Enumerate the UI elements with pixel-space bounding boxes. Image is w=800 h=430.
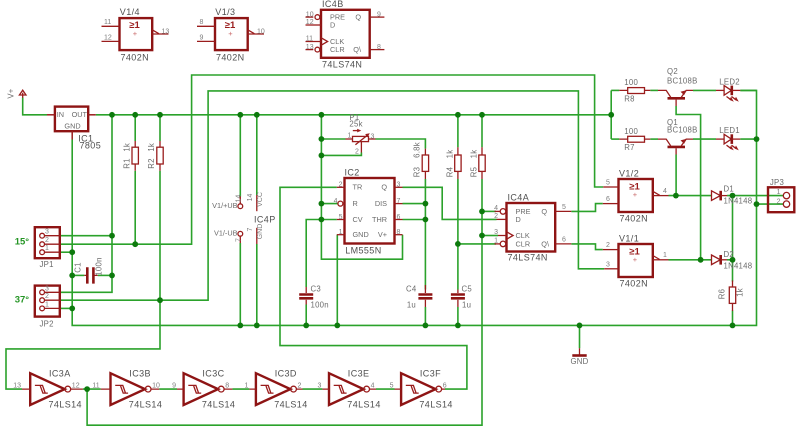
svg-text:74LS14: 74LS14 <box>419 400 452 410</box>
svg-text:LED2: LED2 <box>719 78 740 87</box>
svg-text:+: + <box>633 190 638 199</box>
svg-text:C4: C4 <box>406 285 417 294</box>
svg-text:C5: C5 <box>462 285 473 294</box>
wire net JP1 pin2 / R1 up over the top to V1/2 pin 5 <box>60 75 603 244</box>
D flip-flop IC4B 74LS74N (spare) <box>306 0 385 70</box>
svg-text:R2: R2 <box>147 158 156 168</box>
junction GND column JP2 pin1 <box>69 306 75 312</box>
svg-text:10: 10 <box>306 11 314 18</box>
svg-text:1: 1 <box>45 301 49 308</box>
junction R1 bottom JP1 pin2 <box>132 241 138 247</box>
ground symbol GND <box>570 348 588 366</box>
junction D1 line diode-or column <box>730 193 736 199</box>
svg-text:4: 4 <box>663 188 667 195</box>
svg-text:74LS14: 74LS14 <box>49 400 82 410</box>
svg-text:D1: D1 <box>724 184 734 193</box>
wire net 555 Q to IC4A D <box>403 187 497 219</box>
pin GND stub <box>71 131 73 139</box>
wire IC3E out to IC3F in <box>376 388 395 390</box>
wire 555 DIS link to R3 column <box>403 203 426 205</box>
junction D2 cathode diode-or column <box>730 257 736 263</box>
svg-text:R7: R7 <box>624 143 634 152</box>
wire 555 CV line to C3 top <box>306 220 337 288</box>
svg-text:R1: R1 <box>122 158 131 168</box>
potentiometer P1 25k <box>346 113 376 155</box>
D flip-flop IC4A 74LS74N <box>494 192 571 262</box>
junction R3 column THR <box>423 217 429 223</box>
pin 2 <box>40 298 45 303</box>
junction GND rail GND symbol <box>577 323 583 329</box>
svg-text:1N4148: 1N4148 <box>724 261 753 270</box>
pin 4 R stub with bubble <box>338 201 343 206</box>
svg-text:JP2: JP2 <box>40 320 54 329</box>
svg-text:3: 3 <box>45 229 49 236</box>
junction VCC rail R7/R8 <box>608 112 614 118</box>
pin 5 stub <box>603 186 618 188</box>
wire V1/-UB pin down to GND rail <box>239 243 241 325</box>
svg-text:C3: C3 <box>311 285 321 294</box>
junction VCC rail R4 <box>455 112 461 118</box>
schmitt inverter IC3E 74LS14 <box>317 369 380 410</box>
junction GND rail IC2 GND <box>334 323 340 329</box>
svg-text:+: + <box>228 29 233 38</box>
pin 1 <box>40 250 45 255</box>
wire R8 left link <box>611 89 619 91</box>
svg-text:7402N: 7402N <box>620 214 649 224</box>
output wedge pin 1 <box>653 256 660 260</box>
svg-text:IN: IN <box>57 110 64 119</box>
junction GND column JP1 pin1 <box>69 249 75 255</box>
svg-text:6: 6 <box>443 382 447 389</box>
schmitt inverter IC3B 74LS14 <box>92 369 162 410</box>
transistor Q1 BC108B <box>658 118 698 155</box>
junction R5 column PRE <box>479 209 485 215</box>
svg-text:5: 5 <box>562 204 566 211</box>
svg-text:100n: 100n <box>95 257 104 275</box>
schmitt inverter IC3C 74LS14 <box>172 369 235 410</box>
wire PRE link from R5 column <box>482 210 496 212</box>
svg-text:Q: Q <box>355 13 361 22</box>
wire R1 bottom to JP1 pin2 line <box>134 171 136 244</box>
pin 11 CLK stub with wedge <box>306 38 328 46</box>
svg-text:GND: GND <box>353 230 369 239</box>
svg-text:8: 8 <box>377 44 381 51</box>
pin 13 CLR stub with bubble <box>306 49 314 51</box>
svg-text:BC108B: BC108B <box>667 77 698 86</box>
svg-text:V+: V+ <box>7 88 16 98</box>
resistor R3 6.8k <box>412 142 428 179</box>
svg-text:1k: 1k <box>147 143 156 152</box>
wire VCC to R4 top <box>457 115 459 148</box>
svg-text:8: 8 <box>225 382 229 389</box>
pin 3 <box>40 233 45 238</box>
svg-text:6: 6 <box>562 237 566 244</box>
svg-text:100n: 100n <box>311 300 329 309</box>
pin 7 DIS stub <box>395 203 403 205</box>
schmitt inverter IC3D 74LS14 <box>244 369 307 410</box>
svg-text:Q2: Q2 <box>667 67 678 76</box>
svg-text:1k: 1k <box>736 288 745 297</box>
emission arrows <box>727 145 737 149</box>
wire VCC column x321 to P1, 555 R, CV, and V+ pin 8 <box>321 115 402 259</box>
svg-text:LED1: LED1 <box>719 126 740 135</box>
svg-text:14: 14 <box>247 194 254 202</box>
pin 2 <box>783 201 789 207</box>
svg-text:1: 1 <box>348 132 352 139</box>
pin 12 D stub <box>306 24 322 26</box>
wire diode-or column to R6 top <box>732 196 734 282</box>
wire net VCC rail from IC1 OUT to R7/R8 tee <box>96 114 611 116</box>
svg-text:D2: D2 <box>724 250 734 259</box>
svg-text:1k: 1k <box>445 150 454 159</box>
svg-text:8: 8 <box>397 229 401 236</box>
NOR gate V1/1 7402N <box>603 233 669 288</box>
svg-text:7: 7 <box>397 198 401 205</box>
wire LED2 cathode to right column <box>740 89 756 91</box>
svg-text:13: 13 <box>306 44 314 51</box>
wire VCC to R2 top <box>159 115 161 141</box>
svg-text:V1/+UB: V1/+UB <box>212 201 237 210</box>
wire P1 wiper link <box>321 153 361 156</box>
resistor R8 100 <box>619 78 650 103</box>
svg-text:7: 7 <box>247 227 254 231</box>
svg-text:R6: R6 <box>717 289 726 299</box>
svg-text:2: 2 <box>355 148 359 155</box>
adjust arrow <box>353 130 359 132</box>
timer IC2 LM555N <box>334 167 403 255</box>
junction VCC rail x321 <box>319 112 325 118</box>
svg-text:IC4B: IC4B <box>322 0 344 9</box>
junction GND rail C5 <box>455 323 461 329</box>
svg-text:100: 100 <box>624 78 638 87</box>
svg-text:9: 9 <box>172 382 176 389</box>
power pin V1/-UB <box>214 229 243 243</box>
wire IC3A out to IC3B in <box>83 388 101 390</box>
svg-text:7402N: 7402N <box>216 52 245 62</box>
junction GND column C1 <box>69 273 75 279</box>
voltage regulator IC1 7805 <box>47 107 101 151</box>
svg-text:2: 2 <box>298 382 302 389</box>
capacitor C3 100n <box>299 285 329 310</box>
svg-text:25k: 25k <box>349 120 362 129</box>
emission arrows <box>727 97 737 101</box>
svg-text:1N4148: 1N4148 <box>724 196 753 205</box>
emitter lead with arrow <box>681 139 693 146</box>
svg-text:Q: Q <box>381 183 387 192</box>
svg-text:IC4A: IC4A <box>508 192 530 202</box>
svg-text:2: 2 <box>494 213 498 220</box>
svg-text:7402N: 7402N <box>620 279 649 289</box>
pin 1 <box>40 306 45 311</box>
connector JP1 <box>35 227 61 269</box>
svg-text:D: D <box>330 20 335 29</box>
svg-text:10: 10 <box>257 28 265 35</box>
junction VCC rail R1 <box>132 112 138 118</box>
resistor R5 1k <box>469 147 485 179</box>
svg-text:D: D <box>516 215 521 224</box>
svg-text:R4: R4 <box>445 166 454 177</box>
junction VCC rail IC4P <box>254 112 260 118</box>
wire CLK link from R5 column <box>482 235 498 237</box>
svg-text:Q\: Q\ <box>353 45 362 54</box>
svg-text:100: 100 <box>624 127 638 136</box>
resistor R7 100 <box>619 127 650 152</box>
svg-text:6: 6 <box>397 214 401 221</box>
schmitt inverter IC3A 74LS14 <box>13 369 83 410</box>
svg-text:C1: C1 <box>74 262 83 272</box>
svg-text:1: 1 <box>45 245 49 252</box>
junction V1/2 out Q1 base <box>673 193 679 199</box>
capacitor C4 1u <box>406 285 432 310</box>
junction GND rail V1/-UB <box>237 323 243 329</box>
wire GND symbol drop <box>579 325 581 348</box>
junction VCC rail R2 <box>157 112 163 118</box>
svg-text:2: 2 <box>606 242 610 249</box>
svg-text:+: + <box>133 29 138 38</box>
svg-text:74LS74N: 74LS74N <box>322 60 362 70</box>
junction x321 P1 wiper <box>319 153 325 159</box>
svg-text:6.8k: 6.8k <box>412 142 421 158</box>
connector JP2 <box>35 285 61 328</box>
wire JP1 pin3 to x112 column <box>60 235 112 237</box>
svg-text:3: 3 <box>606 261 610 268</box>
pin 3 stub <box>369 138 376 140</box>
svg-text:1: 1 <box>244 382 248 389</box>
wire IC3D out to IC3E in <box>303 388 323 390</box>
junction VCC rail x112 <box>109 112 115 118</box>
svg-text:1k: 1k <box>122 143 131 152</box>
wire net V+ input from V+ symbol to IC1 IN <box>23 98 47 115</box>
wire Q2 base jog down to V1/1 out net <box>676 106 701 260</box>
svg-text:V1/1: V1/1 <box>619 233 639 243</box>
svg-text:9: 9 <box>200 34 204 41</box>
svg-text:11: 11 <box>306 36 313 43</box>
capacitor C5 1u <box>451 285 472 310</box>
transistor Q2 BC108B <box>658 67 698 106</box>
svg-text:13: 13 <box>13 382 21 389</box>
svg-text:THR: THR <box>372 215 387 224</box>
wire R2 bottom down through JP2 pin2 junction, left, down to IC3A input <box>6 171 160 389</box>
wire R4 bottom through CLR junction to C5 top <box>457 179 459 290</box>
pin 6 stub <box>603 203 619 205</box>
pin 2 TR stub <box>337 186 345 188</box>
pin 9 Q stub <box>370 16 385 18</box>
pin 5 Q stub <box>555 210 571 212</box>
pin 10 PRE stub with bubble <box>306 16 314 18</box>
NOR gate V1/4 7402N (spare) <box>102 7 170 62</box>
svg-text:3: 3 <box>317 382 321 389</box>
svg-text:74LS14: 74LS14 <box>129 400 162 410</box>
wire VCC to R1 top <box>134 115 136 141</box>
junction VCC rail V1/+UB <box>237 112 243 118</box>
junction GND rail R6 <box>730 323 736 329</box>
wire CLR link from R4 column <box>458 243 496 245</box>
svg-text:3: 3 <box>397 182 401 189</box>
base stub <box>675 100 677 106</box>
wire Q2 emitter to LED2 anode <box>693 89 716 91</box>
wire JP3 pin2 from right column <box>757 203 784 205</box>
svg-text:IC4P: IC4P <box>254 215 276 225</box>
collector lead <box>658 139 671 146</box>
svg-text:DIS: DIS <box>375 199 387 208</box>
wire JP1 pin1 to GND column <box>60 251 72 253</box>
svg-text:R8: R8 <box>624 94 634 103</box>
wiper pin 2 stub <box>360 142 362 153</box>
svg-text:CLR: CLR <box>516 239 531 248</box>
svg-text:74LS14: 74LS14 <box>347 400 380 410</box>
pin OUT stub <box>88 114 96 116</box>
pin 3 Q stub <box>395 186 403 188</box>
wire C1 left plate to GND column <box>72 274 84 276</box>
wire P1 pin1 link <box>321 138 345 140</box>
wire net V1/1 out to D2 anode <box>669 259 712 261</box>
svg-text:10: 10 <box>152 382 160 389</box>
wire P1 pin3 to R3 top, R3 bottom to C4 top <box>376 139 426 290</box>
pin 1 CLR stub with bubble <box>495 243 501 245</box>
wire IC3C out to IC3D in <box>232 388 249 390</box>
pin 1 stub <box>346 138 353 140</box>
pin 2 stub <box>603 249 619 251</box>
pin 3 stub <box>604 268 618 270</box>
svg-text:TR: TR <box>353 183 363 192</box>
svg-text:Q\: Q\ <box>541 239 550 248</box>
collector lead <box>658 90 671 97</box>
V+ supply symbol <box>7 88 26 98</box>
wire R7 right to Q1 collector <box>650 138 658 140</box>
svg-text:IC3E: IC3E <box>348 369 370 379</box>
wire IC2 GND pin down to GND rail <box>336 235 338 326</box>
wire LED1 cathode to right column <box>740 138 756 140</box>
svg-text:5: 5 <box>339 214 343 221</box>
pin 5 CV stub <box>337 219 345 221</box>
svg-text:11: 11 <box>104 19 111 26</box>
junction R4 column CLR <box>455 241 461 247</box>
svg-text:1k: 1k <box>469 150 478 159</box>
junction R3 column DIS <box>423 201 429 207</box>
pin 4 PRE stub with bubble <box>495 210 501 212</box>
svg-text:74LS74N: 74LS74N <box>508 253 548 263</box>
schmitt inverter IC3F 74LS14 <box>390 369 453 410</box>
resistor R4 1k <box>445 147 461 179</box>
pin 1 GND stub <box>337 234 345 236</box>
wire VCC to IC4P VCC pin <box>256 115 258 195</box>
pin 6 THR stub <box>395 219 403 221</box>
wire net IC4A Q\ to V1/1 pin 2 <box>571 244 603 250</box>
svg-text:8: 8 <box>200 19 204 26</box>
junction R5 column CLK <box>479 233 485 239</box>
svg-text:BC108B: BC108B <box>667 125 698 134</box>
svg-text:V1/4: V1/4 <box>120 7 140 17</box>
svg-text:Q: Q <box>541 207 547 216</box>
svg-text:5: 5 <box>606 180 610 187</box>
wire R7/R8 left tee column <box>610 90 612 139</box>
svg-text:1: 1 <box>339 229 343 236</box>
resistor R6 1k <box>717 281 744 312</box>
pin 3 CLK stub with wedge <box>498 232 513 240</box>
svg-text:1: 1 <box>494 238 498 245</box>
junction VCC rail R5 <box>479 112 485 118</box>
svg-text:14: 14 <box>236 195 243 203</box>
svg-text:6: 6 <box>606 196 610 203</box>
wire net 555 TR to IC3F output <box>280 187 467 389</box>
wire VCC to V1/+UB pin <box>239 115 241 197</box>
wire D1 cathode to JP3 pin1 <box>727 195 783 197</box>
svg-text:3: 3 <box>371 133 375 140</box>
svg-text:R5: R5 <box>469 166 478 177</box>
wire C3 bottom to GND rail <box>305 305 307 326</box>
svg-text:74LS14: 74LS14 <box>274 400 307 410</box>
junction IC3A output tee <box>84 386 90 392</box>
svg-text:12: 12 <box>306 19 314 26</box>
wire net V1/2 out to D1 anode <box>669 195 712 197</box>
svg-text:V1/2: V1/2 <box>619 168 639 178</box>
junction x112 C1 <box>109 273 115 279</box>
svg-text:2: 2 <box>45 237 49 244</box>
resistor R2 <box>147 141 163 171</box>
svg-text:V1/3: V1/3 <box>215 7 235 17</box>
wire net IC4A Q to V1/2 pin 6 <box>571 204 603 212</box>
svg-text:IC3F: IC3F <box>420 369 441 379</box>
svg-text:7402N: 7402N <box>121 52 150 62</box>
svg-text:15°: 15° <box>15 236 30 247</box>
wire C4 bottom to GND rail <box>424 307 426 325</box>
pin 3 <box>40 290 45 295</box>
wire IC1 GND down to GND rail, rail to right end, up to LED cathodes <box>72 90 756 325</box>
power symbol IC4P VCC/GND <box>247 192 276 244</box>
LED LED1 <box>716 126 740 150</box>
svg-text:GND: GND <box>570 357 588 366</box>
wire C1 right plate to x112 column <box>98 274 112 276</box>
svg-text:37°: 37° <box>15 294 30 305</box>
svg-text:IC3B: IC3B <box>129 369 151 379</box>
svg-text:9: 9 <box>377 11 381 18</box>
wiper diagonal arrow <box>355 135 368 145</box>
wire JP2 pin1 to GND column <box>60 307 72 309</box>
svg-text:OUT: OUT <box>72 110 88 119</box>
NOR gate V1/2 7402N <box>603 168 669 223</box>
wire R7 left link <box>611 138 619 140</box>
pin 2 D stub <box>497 218 507 220</box>
svg-text:4: 4 <box>371 382 375 389</box>
svg-text:IC2: IC2 <box>345 167 360 177</box>
wire R6 bottom to GND rail <box>732 311 734 326</box>
junction GND rail IC4P GND <box>254 323 260 329</box>
wire IC4P GND pin down to GND rail <box>256 244 258 325</box>
svg-text:7: 7 <box>236 238 243 242</box>
wire C5 bottom to GND rail <box>457 307 459 325</box>
svg-text:4: 4 <box>494 205 498 212</box>
capacitor C1 100n <box>74 257 104 283</box>
wire Q1 emitter to LED1 anode <box>693 138 716 140</box>
svg-text:+: + <box>633 255 638 264</box>
wire VCC to R5 top <box>481 115 483 148</box>
svg-text:CV: CV <box>353 215 363 224</box>
svg-text:R3: R3 <box>412 167 421 177</box>
svg-text:V1/-UB: V1/-UB <box>214 229 238 238</box>
svg-text:11: 11 <box>92 382 99 389</box>
svg-text:1: 1 <box>777 189 781 196</box>
svg-text:R: R <box>353 199 358 208</box>
svg-text:IC3D: IC3D <box>275 369 297 379</box>
svg-text:13: 13 <box>162 28 170 35</box>
wire 555 THR link to R3 column <box>403 219 426 221</box>
svg-text:2: 2 <box>777 198 781 205</box>
NOR gate V1/3 7402N (spare) <box>197 7 265 62</box>
wire R8 right to Q2 collector <box>650 89 658 91</box>
svg-text:1u: 1u <box>462 300 471 309</box>
svg-text:GND: GND <box>257 224 264 240</box>
svg-text:VCC: VCC <box>257 192 264 207</box>
